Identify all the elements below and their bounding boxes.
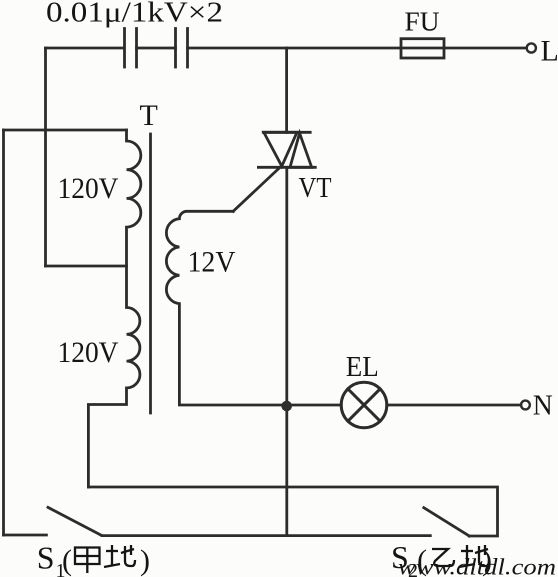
- svg-text:T: T: [140, 99, 158, 132]
- svg-text:120V: 120V: [58, 172, 119, 205]
- svg-text:12V: 12V: [188, 246, 236, 279]
- svg-text:120V: 120V: [58, 336, 119, 369]
- svg-text:VT: VT: [299, 172, 332, 204]
- svg-text:0.01μ/1kV×2: 0.01μ/1kV×2: [46, 0, 223, 29]
- svg-text:S: S: [37, 540, 55, 576]
- svg-text:FU: FU: [405, 7, 440, 37]
- svg-text:www.dltdl.com: www.dltdl.com: [398, 555, 556, 577]
- svg-text:(: (: [62, 544, 72, 577]
- svg-text:EL: EL: [346, 351, 379, 383]
- svg-text:): ): [140, 544, 150, 577]
- svg-text:N: N: [533, 390, 553, 422]
- svg-text:L: L: [541, 35, 558, 68]
